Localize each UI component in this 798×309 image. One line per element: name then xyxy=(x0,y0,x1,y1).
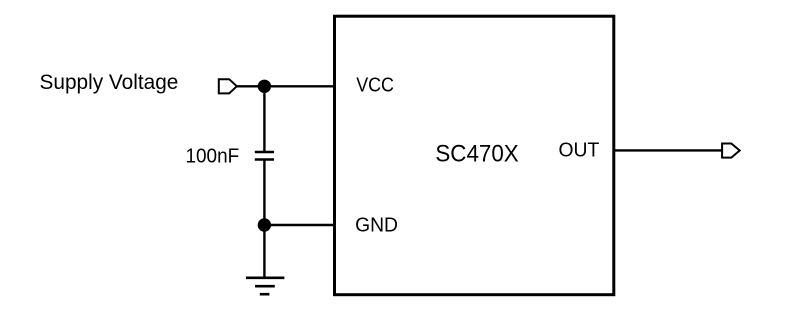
svg-text:100nF: 100nF xyxy=(186,145,240,168)
wire: VCC node down to capacitor xyxy=(263,86,265,152)
ground xyxy=(246,278,284,294)
port: Supply Voltage input xyxy=(219,79,237,93)
svg-text:Supply Voltage: Supply Voltage xyxy=(40,71,179,94)
label Supply Voltage xyxy=(40,71,179,94)
wire: input port to VCC node xyxy=(237,85,265,87)
wire: GND node down to ground symbol xyxy=(263,225,265,278)
wire: VCC node to VCC pin xyxy=(264,85,336,87)
svg-text:OUT: OUT xyxy=(559,139,600,162)
svg-text:GND: GND xyxy=(355,214,398,237)
svg-text:SC470X: SC470X xyxy=(435,141,518,168)
junction: VCC node xyxy=(258,80,271,93)
wire: GND node to GND pin xyxy=(264,224,336,226)
svg-text:VCC: VCC xyxy=(356,74,394,97)
pin label GND xyxy=(355,214,398,237)
port: output xyxy=(722,144,740,158)
pin label VCC xyxy=(356,74,394,97)
IC U1 SC470X body xyxy=(335,16,614,295)
capacitor C1 plates xyxy=(255,152,274,160)
label 100nF xyxy=(186,145,240,168)
pin label OUT xyxy=(559,139,600,162)
label SC470X xyxy=(435,141,518,168)
wire: capacitor to GND node xyxy=(263,160,265,226)
junction: GND node xyxy=(258,218,271,231)
wire: OUT pin to output port xyxy=(613,149,722,151)
